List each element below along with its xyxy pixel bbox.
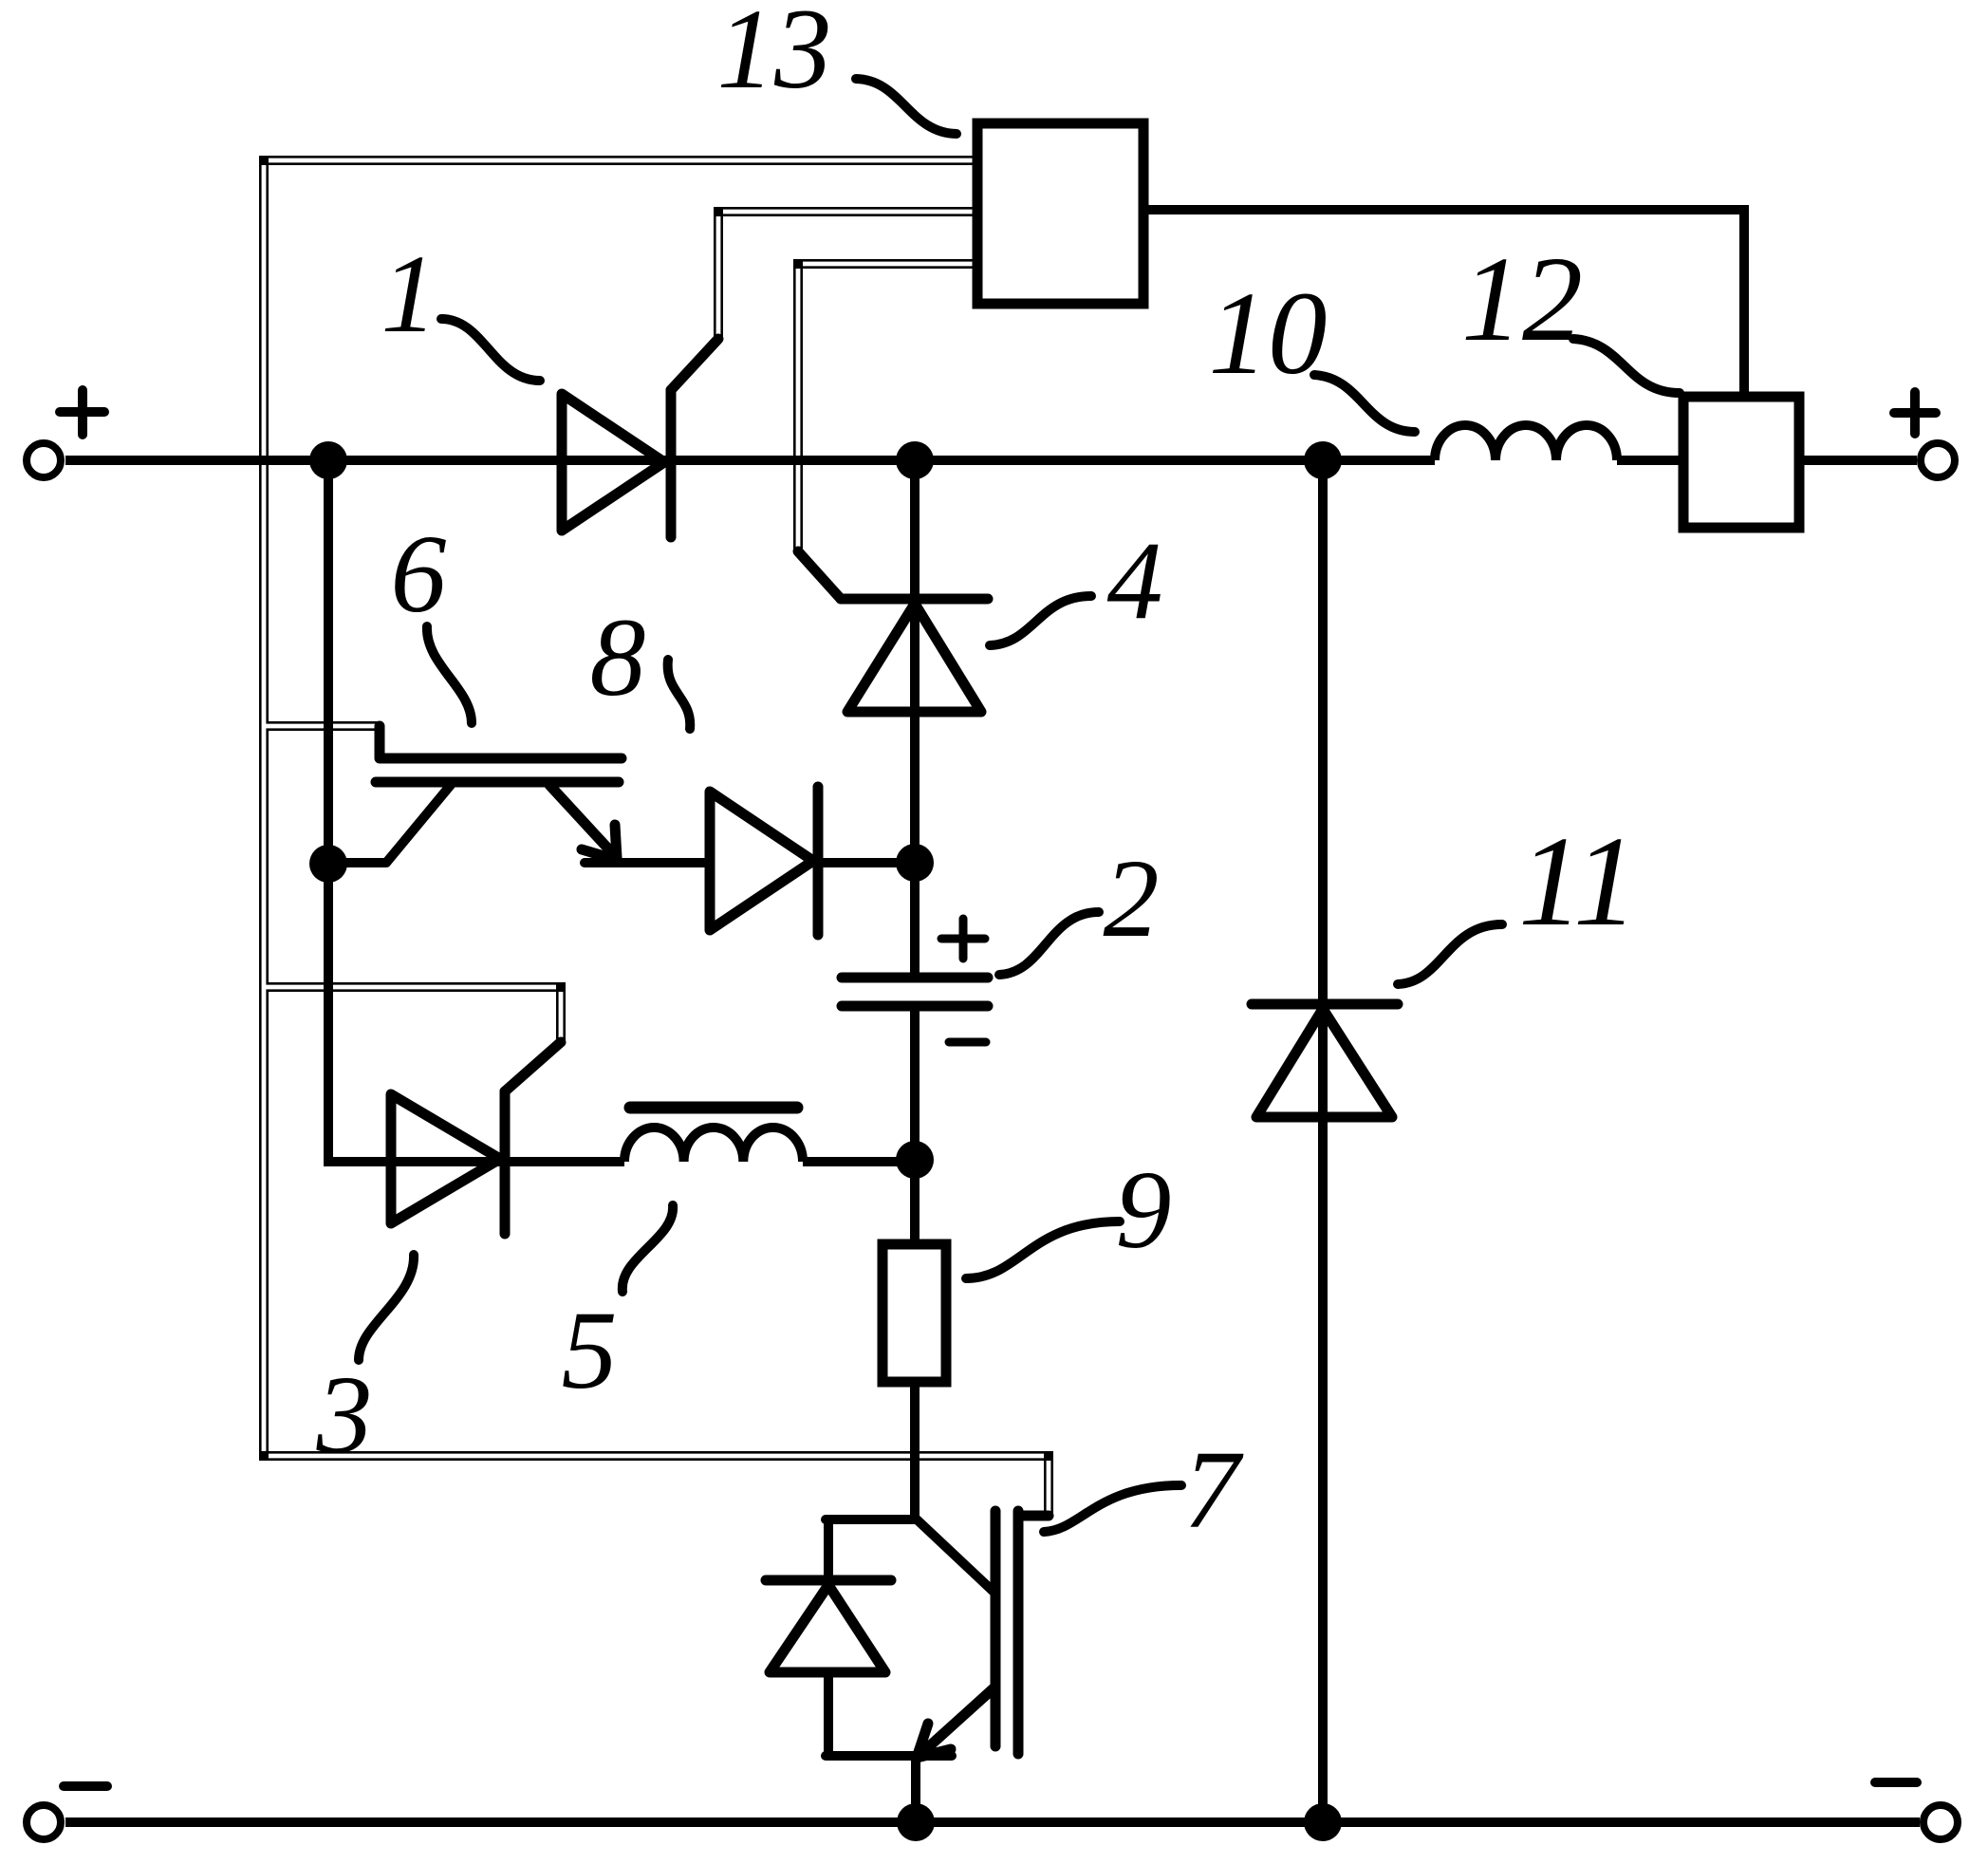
svg-text:5: 5 xyxy=(562,1288,618,1412)
svg-text:4: 4 xyxy=(1107,518,1163,643)
svg-text:9: 9 xyxy=(1116,1147,1172,1272)
svg-text:3: 3 xyxy=(316,1352,373,1477)
svg-text:10: 10 xyxy=(1209,269,1328,400)
svg-text:6: 6 xyxy=(391,512,447,636)
svg-text:1: 1 xyxy=(381,232,437,356)
svg-text:2: 2 xyxy=(1104,836,1160,960)
svg-text:12: 12 xyxy=(1461,232,1583,366)
svg-text:11: 11 xyxy=(1518,811,1638,953)
svg-text:7: 7 xyxy=(1184,1427,1245,1552)
svg-text:13: 13 xyxy=(717,0,832,113)
svg-text:8: 8 xyxy=(590,595,646,719)
